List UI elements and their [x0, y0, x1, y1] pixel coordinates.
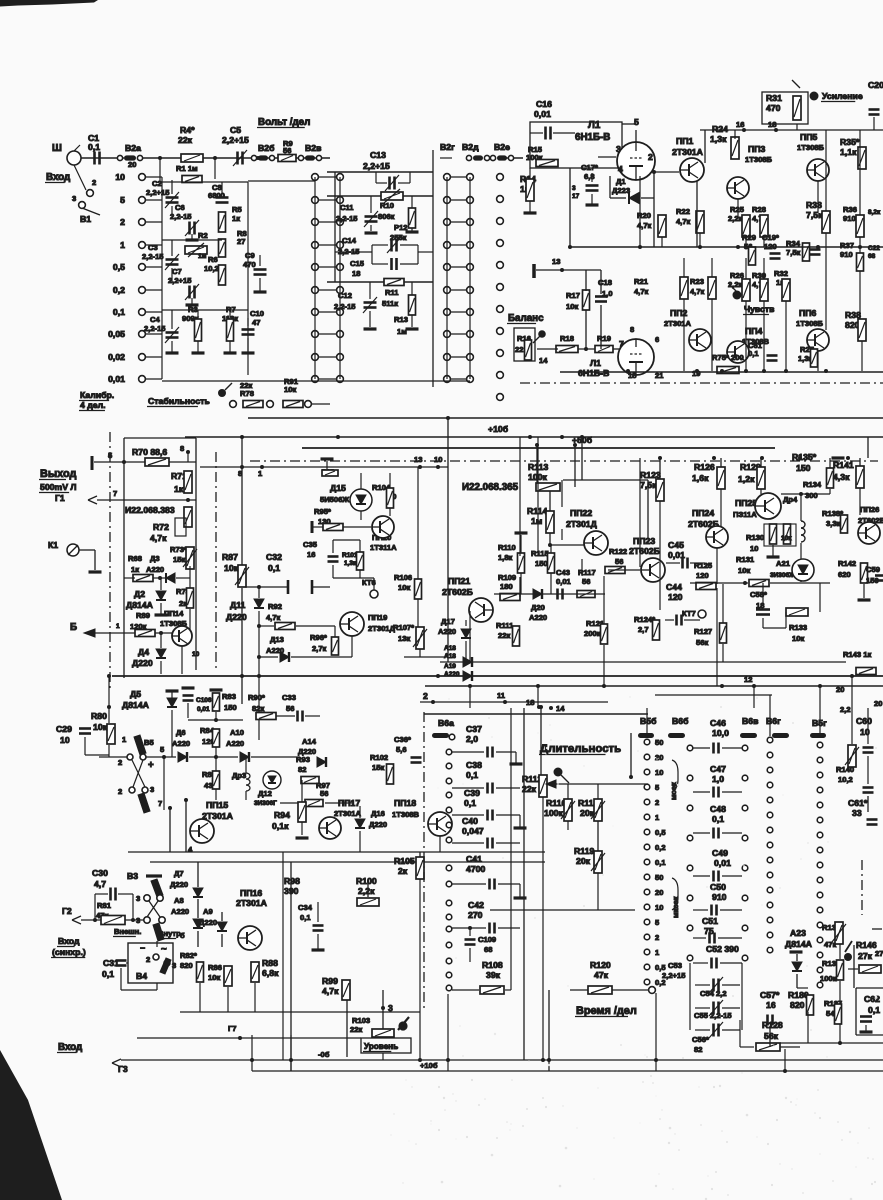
svg-text:Д15: Д15 [330, 483, 346, 493]
svg-text:Уровень: Уровень [364, 1042, 398, 1051]
svg-text:2Т301А: 2Т301А [672, 147, 704, 157]
svg-text:ПП23: ПП23 [633, 536, 655, 546]
svg-text:Чувств: Чувств [744, 304, 775, 314]
svg-text:R92: R92 [268, 602, 282, 611]
svg-text:А18: А18 [444, 653, 456, 660]
svg-text:R133: R133 [789, 623, 807, 632]
svg-text:Д20: Д20 [531, 603, 545, 612]
svg-text:0,01: 0,01 [714, 858, 731, 868]
svg-text:В6г: В6г [766, 716, 781, 726]
svg-text:4,7к: 4,7к [150, 533, 167, 543]
svg-text:С20: С20 [868, 80, 883, 90]
svg-text:Д5: Д5 [130, 689, 141, 699]
svg-text:8: 8 [180, 444, 184, 453]
svg-text:R89: R89 [136, 611, 150, 620]
svg-text:4,7к: 4,7к [322, 986, 339, 996]
svg-text:R17: R17 [566, 291, 580, 300]
svg-text:C35: C35 [303, 540, 318, 549]
svg-text:C50: C50 [710, 882, 726, 892]
svg-text:3: 3 [72, 194, 76, 203]
svg-text:27: 27 [875, 949, 883, 958]
svg-text:R25: R25 [730, 205, 745, 214]
svg-text:Д16: Д16 [371, 809, 385, 818]
svg-text:И22.068.365: И22.068.365 [462, 482, 519, 493]
svg-text:Л1: Л1 [588, 120, 601, 131]
svg-text:5И506Ж: 5И506Ж [320, 495, 349, 504]
svg-text:R37: R37 [840, 241, 854, 250]
svg-text:C18: C18 [598, 278, 612, 287]
svg-text:2,2к: 2,2к [358, 886, 375, 896]
svg-text:10: 10 [60, 735, 70, 745]
svg-text:10: 10 [655, 768, 663, 777]
svg-text:17: 17 [572, 193, 580, 200]
svg-text:C16: C16 [536, 99, 552, 109]
svg-text:В2а: В2а [125, 143, 141, 153]
svg-text:13: 13 [552, 257, 560, 266]
svg-text:C44: C44 [666, 582, 682, 592]
svg-text:R143 1к: R143 1к [843, 650, 871, 659]
svg-text:1Т308Б: 1Т308Б [797, 143, 825, 152]
svg-text:Ш: Ш [52, 143, 62, 154]
svg-text:10к: 10к [566, 302, 578, 311]
svg-text:R125: R125 [694, 561, 713, 570]
svg-text:0,02: 0,02 [108, 352, 125, 362]
svg-text:C49: C49 [712, 848, 728, 858]
svg-text:4700: 4700 [466, 864, 485, 874]
svg-text:C11: C11 [340, 203, 354, 212]
svg-text:2: 2 [92, 178, 96, 187]
svg-text:R33: R33 [806, 200, 822, 210]
svg-text:0,047: 0,047 [462, 826, 484, 836]
svg-text:11: 11 [497, 691, 506, 700]
svg-text:ПП5: ПП5 [800, 132, 817, 142]
svg-text:Д3: Д3 [150, 554, 160, 563]
svg-text:С106: С106 [196, 697, 212, 704]
svg-text:2: 2 [120, 217, 125, 227]
svg-text:А220: А220 [146, 565, 164, 574]
svg-text:2Т602Б: 2Т602Б [442, 587, 473, 597]
svg-text:В6а: В6а [438, 718, 454, 728]
svg-text:2к: 2к [398, 866, 408, 876]
svg-text:0,2: 0,2 [655, 843, 666, 852]
svg-text:33: 33 [852, 808, 862, 818]
svg-text:И22.068.383: И22.068.383 [125, 505, 175, 515]
svg-text:R117: R117 [578, 568, 596, 577]
svg-text:В2г: В2г [440, 142, 455, 152]
svg-text:-0б: -0б [318, 1050, 330, 1059]
svg-text:C45: C45 [668, 540, 684, 550]
svg-text:−: − [140, 943, 145, 953]
svg-text:1,8к: 1,8к [498, 553, 513, 562]
svg-text:270: 270 [468, 910, 483, 920]
svg-text:620: 620 [838, 570, 851, 579]
svg-text:3: 3 [572, 185, 576, 192]
svg-text:0,1к: 0,1к [272, 821, 289, 831]
svg-text:Л1: Л1 [590, 358, 601, 368]
svg-text:511к: 511к [382, 299, 398, 308]
svg-text:C47: C47 [710, 764, 726, 774]
svg-text:C40: C40 [462, 816, 478, 826]
svg-text:ПП16: ПП16 [240, 888, 262, 898]
svg-text:R107*: R107* [393, 623, 414, 632]
svg-text:C15: C15 [350, 259, 365, 268]
svg-text:Вольт /дел: Вольт /дел [258, 117, 310, 128]
svg-text:2: 2 [118, 758, 122, 767]
svg-text:C5: C5 [230, 125, 241, 135]
svg-text:6: 6 [655, 335, 659, 344]
svg-text:R95*: R95* [314, 507, 331, 516]
svg-text:C109: C109 [478, 935, 496, 944]
svg-text:C32: C32 [266, 552, 282, 562]
svg-text:Д12: Д12 [258, 789, 272, 798]
svg-text:C41: C41 [466, 854, 482, 864]
svg-text:2: 2 [423, 691, 428, 701]
svg-text:1Т308В: 1Т308В [392, 810, 420, 819]
svg-text:1к: 1к [232, 214, 240, 223]
svg-text:В6в: В6в [742, 716, 758, 726]
svg-text:А19: А19 [444, 663, 456, 670]
svg-text:А220: А220 [438, 627, 456, 636]
svg-text:2Т301А: 2Т301А [664, 319, 692, 328]
svg-text:39к: 39к [486, 970, 501, 980]
svg-text:мсек: мсек [669, 782, 678, 800]
svg-text:2: 2 [118, 787, 122, 796]
svg-text:R68: R68 [128, 554, 142, 563]
svg-text:R36: R36 [843, 205, 857, 214]
svg-text:R70 88,6: R70 88,6 [132, 447, 167, 457]
svg-text:0,1: 0,1 [300, 913, 311, 922]
svg-text:2,2+15: 2,2+15 [146, 188, 170, 197]
svg-text:А23: А23 [790, 928, 806, 938]
svg-text:2,0: 2,0 [466, 734, 478, 744]
svg-text:К1: К1 [48, 540, 58, 550]
svg-text:R75* 200: R75* 200 [712, 353, 744, 362]
svg-text:56: 56 [320, 789, 328, 798]
svg-text:910: 910 [712, 892, 727, 902]
svg-text:1,3к: 1,3к [344, 560, 357, 567]
svg-text:ПП25: ПП25 [735, 498, 757, 508]
svg-text:150: 150 [224, 703, 237, 712]
svg-text:R100: R100 [356, 876, 377, 886]
svg-text:0,5: 0,5 [113, 262, 125, 272]
svg-text:C30: C30 [92, 868, 108, 878]
svg-text:В1: В1 [80, 214, 91, 224]
svg-text:R109: R109 [498, 573, 516, 582]
svg-text:R105: R105 [394, 856, 415, 866]
svg-text:ПП14: ПП14 [164, 609, 184, 618]
svg-text:R28: R28 [752, 205, 766, 214]
svg-text:Г3: Г3 [118, 1064, 128, 1074]
svg-text:В5: В5 [144, 738, 154, 747]
svg-text:56: 56 [286, 704, 294, 713]
svg-text:0,5: 0,5 [655, 828, 666, 837]
svg-text:806к: 806к [378, 212, 395, 221]
svg-text:R94: R94 [274, 810, 290, 820]
svg-text:R18: R18 [560, 334, 574, 343]
svg-text:10: 10 [655, 903, 663, 912]
svg-text:3И306Г: 3И306Г [254, 800, 277, 807]
svg-text:ПП4: ПП4 [745, 326, 762, 336]
svg-text:Д4: Д4 [138, 647, 149, 657]
svg-text:R114: R114 [527, 506, 547, 516]
svg-text:C62: C62 [864, 994, 880, 1004]
svg-text:ПП18: ПП18 [394, 798, 416, 808]
svg-text:3: 3 [172, 961, 176, 970]
svg-text:22: 22 [515, 345, 523, 354]
svg-text:68: 68 [484, 945, 492, 954]
svg-text:18: 18 [768, 120, 776, 129]
svg-text:13к: 13к [398, 634, 410, 643]
svg-text:C38: C38 [466, 760, 482, 770]
svg-text:+10б: +10б [420, 1061, 438, 1070]
svg-text:Д7: Д7 [174, 869, 184, 878]
svg-text:КТ7: КТ7 [682, 609, 696, 618]
svg-text:Д220: Д220 [369, 820, 387, 829]
svg-text:82: 82 [298, 765, 306, 774]
svg-text:22к: 22к [240, 381, 252, 390]
svg-text:4,7к: 4,7к [637, 221, 652, 230]
svg-text:Стабильность: Стабильность [148, 396, 210, 406]
svg-text:Д220: Д220 [199, 918, 217, 927]
svg-text:C17*: C17* [581, 163, 598, 172]
svg-text:R93: R93 [296, 755, 310, 764]
svg-text:Длительность: Длительность [540, 743, 621, 755]
svg-text:2,2-15: 2,2-15 [336, 214, 358, 223]
svg-text:8,2к: 8,2к [868, 209, 881, 216]
svg-text:Д220: Д220 [170, 880, 188, 889]
svg-text:56: 56 [582, 577, 590, 586]
svg-text:10к: 10к [93, 722, 108, 732]
svg-text:27: 27 [237, 237, 245, 246]
svg-text:В4: В4 [136, 971, 147, 981]
svg-text:20к: 20к [576, 856, 591, 866]
svg-text:10к: 10к [224, 563, 239, 573]
svg-text:1,3к: 1,3к [710, 134, 727, 144]
svg-text:C48: C48 [710, 804, 726, 814]
svg-text:C2: C2 [152, 179, 162, 188]
svg-text:Усиление: Усиление [822, 91, 863, 101]
svg-text:C12: C12 [338, 291, 352, 300]
svg-text:4,7к: 4,7к [634, 287, 649, 296]
svg-text:R2: R2 [198, 231, 208, 240]
svg-text:2,2: 2,2 [840, 705, 851, 714]
svg-text:56к: 56к [696, 638, 708, 647]
svg-text:А14: А14 [302, 737, 317, 746]
svg-text:R78: R78 [240, 389, 254, 398]
svg-text:Г1: Г1 [55, 493, 65, 503]
svg-text:ПП26: ПП26 [860, 505, 879, 514]
svg-text:C29: C29 [56, 724, 72, 734]
svg-text:2,2+15: 2,2+15 [363, 161, 390, 171]
svg-text:1к: 1к [174, 484, 184, 494]
svg-text:4,7к: 4,7к [676, 217, 691, 226]
svg-text:Время /дел: Время /дел [576, 1005, 637, 1017]
svg-text:15к: 15к [173, 555, 185, 564]
svg-text:12: 12 [744, 675, 752, 684]
svg-text:А220: А220 [226, 739, 244, 748]
svg-text:22к: 22к [178, 135, 193, 145]
svg-text:C46: C46 [710, 718, 726, 728]
svg-text:С22: С22 [868, 245, 880, 252]
svg-text:C51: C51 [702, 916, 718, 926]
svg-text:C57*: C57* [760, 990, 780, 1000]
svg-text:1: 1 [116, 623, 120, 630]
svg-text:820: 820 [180, 961, 193, 970]
svg-text:R6: R6 [208, 255, 218, 264]
svg-text:Баланс: Баланс [508, 313, 544, 324]
svg-text:А21: А21 [776, 559, 791, 568]
svg-text:R13: R13 [394, 315, 408, 324]
svg-text:R20: R20 [637, 211, 651, 220]
svg-text:R131: R131 [736, 555, 755, 564]
svg-text:10: 10 [750, 544, 758, 553]
svg-text:4 дел.: 4 дел. [80, 400, 106, 410]
svg-text:Внешн.: Внешн. [114, 927, 141, 936]
svg-text:22к: 22к [498, 631, 510, 640]
svg-text:Д220: Д220 [298, 747, 316, 756]
svg-text:Калибр.: Калибр. [80, 390, 114, 400]
svg-text:С60: С60 [856, 716, 872, 726]
svg-text:R106: R106 [394, 573, 412, 582]
svg-text:0,1: 0,1 [712, 814, 724, 824]
svg-text:R5: R5 [232, 205, 242, 214]
svg-text:C37: C37 [466, 724, 482, 734]
svg-text:3: 3 [136, 894, 140, 903]
svg-text:R31: R31 [766, 93, 782, 103]
svg-text:120: 120 [668, 592, 683, 602]
svg-text:C14: C14 [342, 236, 357, 245]
svg-text:А18: А18 [444, 645, 456, 652]
svg-text:2,2-15: 2,2-15 [334, 302, 356, 311]
svg-text:6,8: 6,8 [584, 172, 595, 181]
svg-text:2: 2 [655, 798, 659, 807]
svg-text:20: 20 [128, 160, 136, 169]
svg-text:0,1: 0,1 [466, 770, 478, 780]
svg-text:5: 5 [634, 117, 639, 127]
svg-text:47: 47 [252, 318, 260, 327]
svg-text:Др4: Др4 [783, 495, 798, 504]
svg-text:А220: А220 [529, 613, 547, 622]
svg-text:1м: 1м [198, 253, 207, 260]
svg-text:100к: 100к [820, 974, 837, 983]
svg-text:10: 10 [434, 455, 442, 464]
svg-text:56к: 56к [764, 1031, 779, 1041]
svg-text:0,1: 0,1 [868, 1005, 880, 1015]
svg-text:Г7: Г7 [228, 1024, 237, 1033]
svg-text:C55 2,2-15: C55 2,2-15 [694, 1011, 732, 1020]
svg-text:2,2к: 2,2к [728, 214, 743, 223]
svg-text:200к: 200к [584, 629, 601, 638]
svg-text:C52 390: C52 390 [706, 944, 739, 954]
svg-text:R83: R83 [222, 692, 236, 701]
svg-text:R81: R81 [97, 901, 112, 910]
svg-text:R119: R119 [574, 846, 594, 856]
svg-text:1,6к: 1,6к [692, 473, 709, 483]
svg-text:ПП21: ПП21 [448, 576, 470, 586]
svg-text:2Т301Д: 2Т301Д [566, 519, 598, 529]
svg-text:56: 56 [283, 146, 291, 155]
svg-text:R24: R24 [712, 124, 728, 134]
svg-text:1к: 1к [131, 565, 139, 574]
svg-text:3И306Ж: 3И306Ж [770, 572, 795, 579]
svg-text:R73*: R73* [170, 545, 187, 554]
svg-text:8: 8 [630, 325, 634, 334]
svg-text:15к: 15к [372, 763, 384, 772]
svg-text:~: ~ [161, 944, 167, 955]
svg-text:В2в: В2в [305, 143, 321, 153]
svg-text:ПП24: ПП24 [692, 508, 714, 518]
svg-text:C59: C59 [866, 565, 880, 574]
svg-text:Д220: Д220 [132, 658, 153, 668]
svg-text:R88: R88 [262, 958, 278, 968]
svg-text:В3: В3 [127, 871, 138, 881]
svg-text:ПП22: ПП22 [570, 508, 592, 518]
svg-text:2: 2 [655, 933, 659, 942]
svg-text:0,1: 0,1 [113, 307, 125, 317]
svg-text:R21: R21 [634, 277, 649, 286]
svg-text:R23: R23 [690, 277, 704, 286]
svg-text:Г2: Г2 [62, 906, 72, 916]
svg-text:C53: C53 [668, 961, 682, 970]
svg-text:R146: R146 [856, 940, 877, 950]
svg-text:16: 16 [307, 550, 315, 559]
svg-text:4,7к: 4,7к [690, 287, 705, 296]
svg-text:0,1: 0,1 [464, 798, 476, 808]
svg-text:Д223: Д223 [612, 186, 630, 195]
svg-text:А220: А220 [172, 739, 190, 748]
svg-text:R128: R128 [762, 1020, 783, 1030]
svg-text:0,1: 0,1 [655, 858, 666, 867]
svg-text:0,01: 0,01 [534, 109, 551, 119]
svg-text:C4: C4 [150, 315, 160, 324]
svg-text:R86: R86 [208, 963, 222, 972]
svg-text:+: + [148, 760, 154, 771]
svg-text:R134: R134 [803, 480, 822, 489]
svg-text:Вход: Вход [58, 1042, 83, 1053]
svg-text:10,0: 10,0 [712, 728, 729, 738]
svg-text:16: 16 [736, 120, 744, 129]
svg-text:мксек: мксек [671, 896, 680, 918]
svg-text:C56*: C56* [692, 1035, 709, 1044]
svg-text:R99: R99 [322, 976, 338, 986]
svg-text:R4*: R4* [180, 125, 195, 135]
svg-text:R87: R87 [222, 552, 238, 562]
svg-text:В2е: В2е [494, 142, 510, 152]
svg-text:7,5к: 7,5к [786, 248, 801, 257]
svg-text:14: 14 [556, 704, 565, 713]
svg-text:2Т301А: 2Т301А [236, 898, 268, 908]
svg-text:1Т311А: 1Т311А [370, 543, 397, 552]
svg-text:C58*: C58* [750, 590, 767, 599]
svg-text:20: 20 [836, 685, 844, 694]
svg-text:Б: Б [70, 622, 77, 633]
svg-text:C43: C43 [556, 568, 570, 577]
svg-text:20: 20 [655, 753, 663, 762]
svg-text:2: 2 [648, 152, 653, 162]
svg-text:16: 16 [766, 1000, 776, 1010]
svg-text:R126: R126 [694, 462, 715, 472]
svg-text:2,2+15: 2,2+15 [662, 971, 686, 980]
svg-text:1,2к: 1,2к [738, 474, 755, 484]
svg-text:1,0: 1,0 [712, 774, 724, 784]
svg-text:Вход: Вход [46, 172, 71, 183]
svg-text:10к: 10к [792, 634, 804, 643]
svg-text:Д220: Д220 [226, 612, 247, 622]
svg-text:R32: R32 [774, 269, 788, 278]
svg-text:R35*: R35* [840, 137, 860, 147]
svg-text:R22: R22 [676, 207, 690, 216]
svg-text:2,7к: 2,7к [312, 644, 327, 653]
